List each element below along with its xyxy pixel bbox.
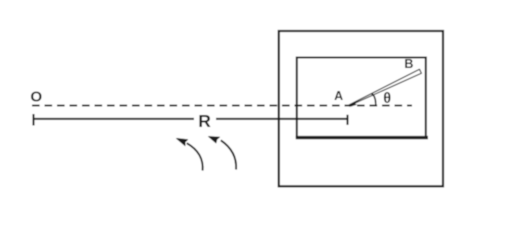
left curved arrow head — [177, 138, 188, 145]
right curved arrow shaft — [221, 140, 236, 169]
rod AB (outlined, pointed at A end) — [348, 69, 421, 106]
dashed reference line from O through the boxes — [32, 105, 412, 107]
inner box thick bottom edge — [296, 136, 428, 139]
dimension line R left tick — [32, 114, 34, 126]
dimension line R right segment — [216, 118, 348, 120]
svg-text:O: O — [30, 89, 42, 106]
outer box — [279, 31, 443, 186]
right curved arrow head — [209, 137, 220, 143]
angle arc at A — [371, 94, 375, 106]
svg-text:θ: θ — [383, 91, 391, 107]
rod tip wedge at A — [347, 103, 357, 107]
dimension line R left segment — [33, 118, 194, 120]
dimension line R right tick — [346, 115, 348, 125]
inner box — [297, 58, 426, 138]
svg-text:R: R — [198, 111, 211, 131]
svg-text:A: A — [334, 89, 343, 103]
svg-text:B: B — [404, 57, 413, 71]
left curved arrow shaft — [187, 143, 203, 170]
